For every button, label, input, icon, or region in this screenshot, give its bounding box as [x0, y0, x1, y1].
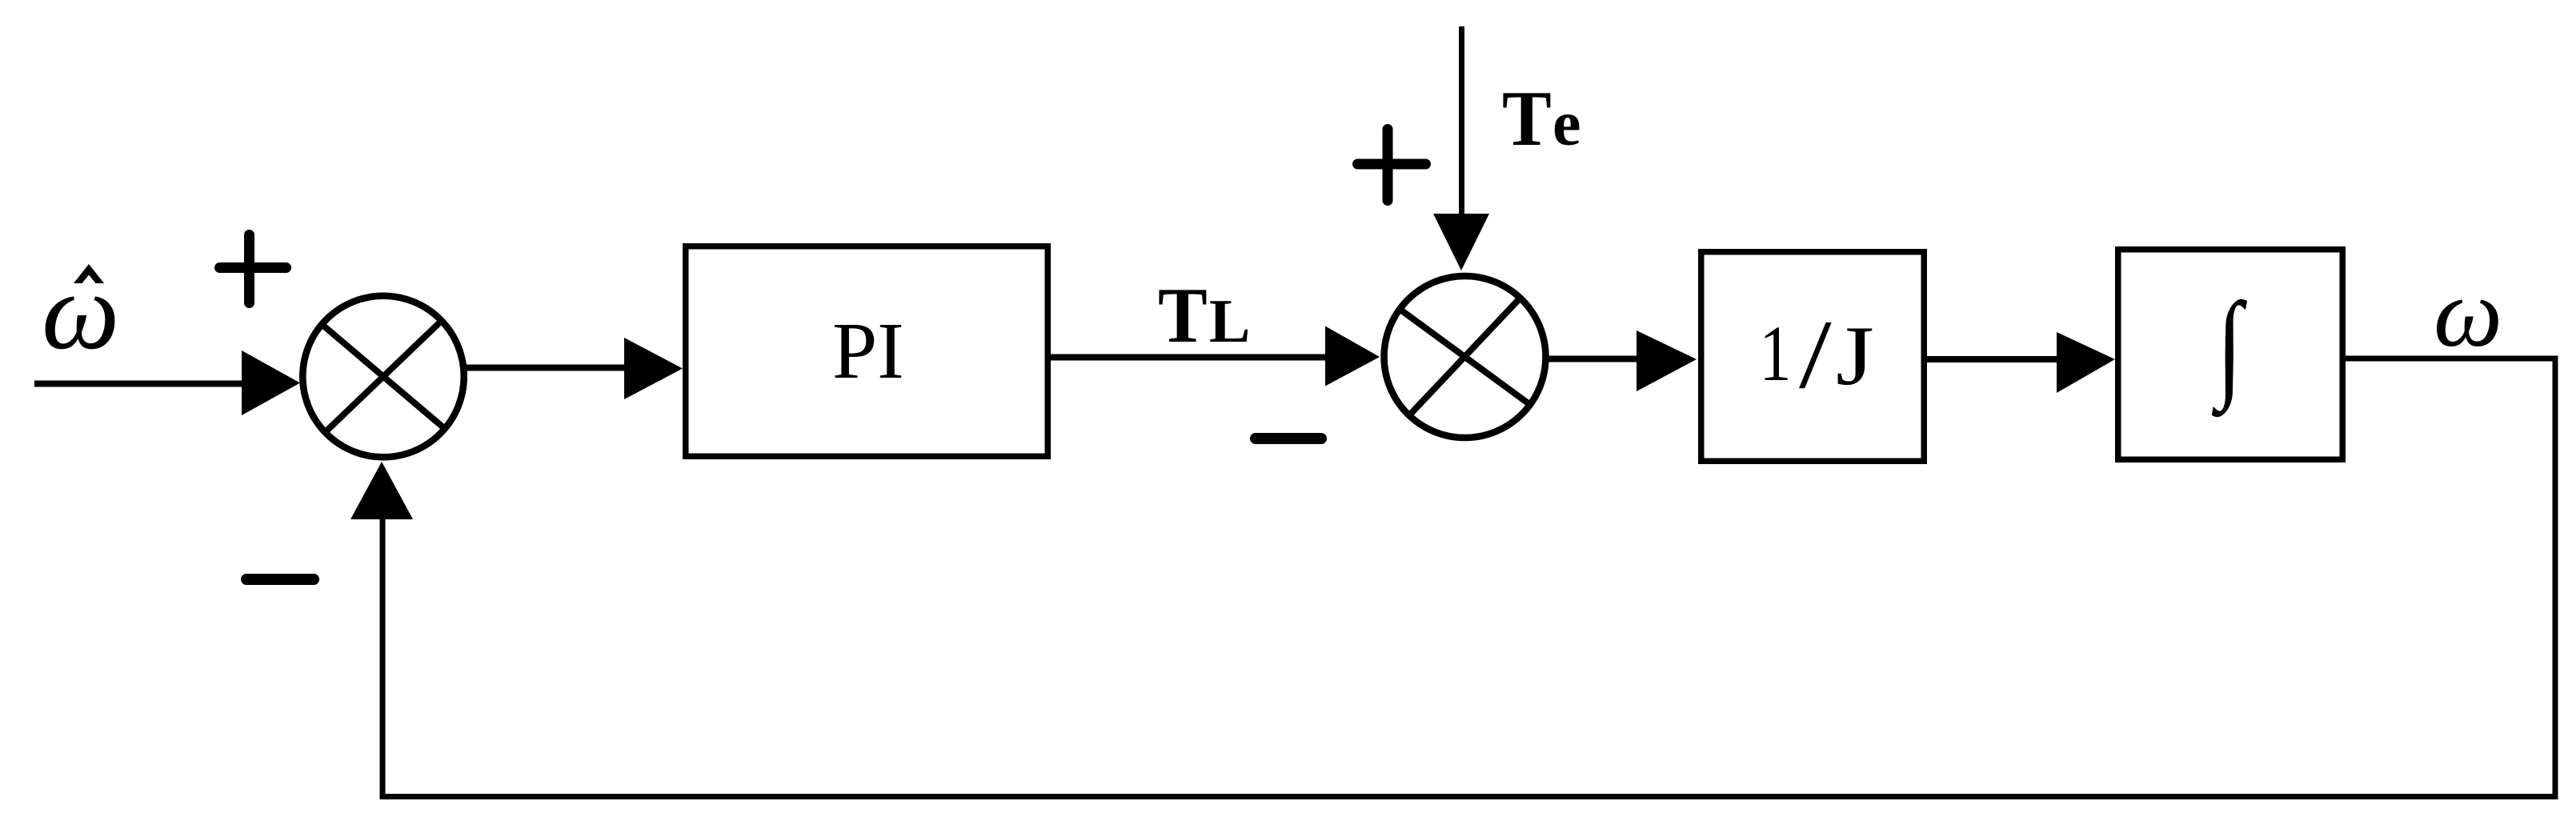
- wire input to summing junction S1: [34, 381, 246, 387]
- svg-text:1: 1: [1760, 309, 1792, 398]
- S2 cross diagonal NW-SE: [1400, 310, 1529, 404]
- summing junction S1 circle: [302, 296, 464, 458]
- arrowhead into 1/J block: [1637, 330, 1697, 391]
- S2 cross diagonal SW-NE: [1410, 298, 1520, 415]
- arrowhead into summing junction S2: [1325, 326, 1380, 386]
- block integrator rectangle: [2118, 250, 2343, 460]
- feedback wire left vertical: [380, 516, 386, 799]
- wire S2 to 1/J block: [1548, 356, 1641, 362]
- minus sign at S1 feedback input: [246, 574, 314, 585]
- wire PI to summing junction S2 (torque TL): [1051, 354, 1328, 361]
- svg-text:L: L: [1209, 286, 1250, 355]
- arrowhead into integrator block: [2057, 332, 2115, 393]
- wire 1/J to integrator block: [1927, 356, 2061, 362]
- S1 cross diagonal SW-NE: [326, 322, 441, 432]
- feedback wire bottom horizontal: [380, 794, 2558, 799]
- wire output from integrator to right corner: [2346, 356, 2553, 362]
- svg-text:T: T: [1158, 271, 1208, 358]
- plus sign at Te input: [1358, 130, 1426, 201]
- wire Te input vertical: [1459, 26, 1464, 218]
- svg-text:T: T: [1502, 74, 1552, 162]
- plus sign at S1 input: [220, 235, 286, 303]
- svg-text:∫: ∫: [2211, 278, 2247, 418]
- arrowhead feedback into S1 bottom: [351, 462, 413, 519]
- arrowhead into summing junction S1: [242, 350, 300, 415]
- svg-text:e: e: [1552, 89, 1581, 159]
- hat accent over omega: [74, 264, 104, 283]
- svg-text:J: J: [1836, 309, 1874, 402]
- summing junction S2 circle: [1384, 276, 1546, 438]
- svg-text:PI: PI: [832, 306, 904, 395]
- minus sign at S2 lower input: [1256, 433, 1321, 444]
- svg-text:ω: ω: [2434, 259, 2502, 367]
- wire S1 to PI block: [467, 365, 629, 371]
- block PI rectangle: [686, 246, 1048, 457]
- svg-text:ω: ω: [42, 250, 119, 372]
- block 1/J rectangle: [1701, 252, 1925, 462]
- arrowhead into PI block: [624, 338, 683, 399]
- S1 cross diagonal NW-SE: [323, 325, 444, 428]
- feedback wire right vertical: [2553, 356, 2558, 800]
- arrowhead Te into S2: [1433, 214, 1489, 270]
- svg-text:/: /: [1799, 301, 1832, 410]
